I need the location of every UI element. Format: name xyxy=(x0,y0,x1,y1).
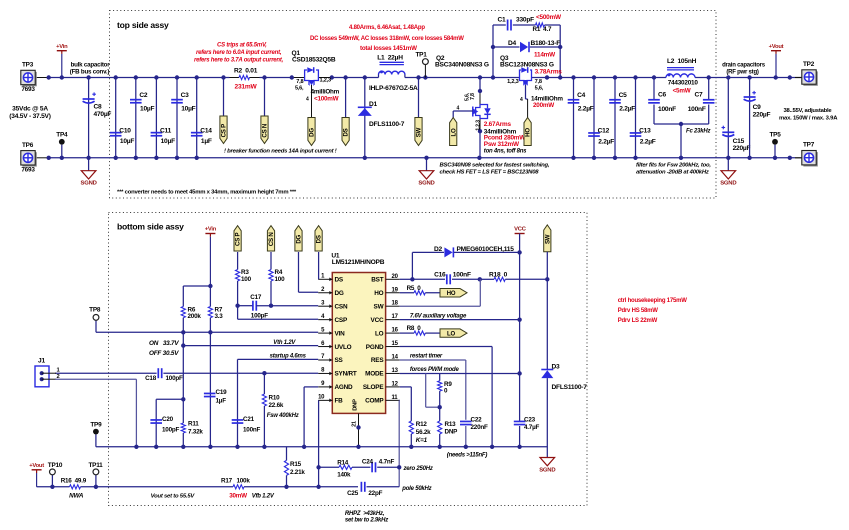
svg-text:TP8: TP8 xyxy=(89,307,101,314)
svg-text:check HS FET = LS FET = BSC123: check HS FET = LS FET = BSC123N08 xyxy=(440,169,540,175)
svg-text:SGND: SGND xyxy=(539,467,555,473)
svg-text:TP6: TP6 xyxy=(22,142,34,149)
svg-text:R8 0: R8 0 xyxy=(407,325,422,332)
svg-text:SW: SW xyxy=(544,234,551,244)
svg-text:140k: 140k xyxy=(337,472,351,479)
svg-text:11: 11 xyxy=(392,395,399,401)
svg-text:R3: R3 xyxy=(241,269,249,276)
svg-text:200mW: 200mW xyxy=(533,102,554,109)
svg-text:+Vout: +Vout xyxy=(769,44,784,50)
svg-text:ON 33.7V: ON 33.7V xyxy=(149,340,179,347)
svg-text:L1 22µH: L1 22µH xyxy=(377,55,403,62)
svg-text:(34.5V - 37.5V): (34.5V - 37.5V) xyxy=(9,113,50,120)
svg-text:DS: DS xyxy=(316,235,323,243)
svg-text:drain capacitors: drain capacitors xyxy=(722,63,766,69)
svg-text:C19: C19 xyxy=(216,389,228,396)
svg-text:R15: R15 xyxy=(290,461,302,468)
svg-text:100: 100 xyxy=(275,276,286,283)
svg-text:TP11: TP11 xyxy=(88,462,103,469)
svg-text:2.2µF: 2.2µF xyxy=(619,106,635,113)
svg-text:zero 250Hz: zero 250Hz xyxy=(403,466,433,472)
svg-text:R17 100k: R17 100k xyxy=(221,477,250,484)
svg-text:C5: C5 xyxy=(619,92,628,99)
svg-text:10µF: 10µF xyxy=(140,106,154,113)
svg-text:DNP: DNP xyxy=(353,399,359,411)
svg-text:C8: C8 xyxy=(94,104,103,111)
svg-text:100nF: 100nF xyxy=(453,271,471,278)
svg-text:VCC: VCC xyxy=(514,227,527,233)
svg-text:bottom side assy: bottom side assy xyxy=(117,222,184,232)
svg-text:4: 4 xyxy=(457,105,460,111)
svg-text:744302010: 744302010 xyxy=(668,80,699,87)
svg-text:220nF: 220nF xyxy=(471,424,488,431)
svg-text:220µF: 220µF xyxy=(753,111,771,118)
svg-text:(FB bus conv.): (FB bus conv.) xyxy=(70,69,110,76)
svg-text:2.67Arms: 2.67Arms xyxy=(484,121,512,128)
svg-text:13: 13 xyxy=(392,368,399,374)
svg-text:BSC123N08NS3 G: BSC123N08NS3 G xyxy=(500,62,554,69)
svg-text:C20: C20 xyxy=(162,416,174,423)
svg-text:refers here to 6.0A input curr: refers here to 6.0A input current, xyxy=(196,50,282,56)
svg-text:C7: C7 xyxy=(695,91,704,98)
svg-text:BST: BST xyxy=(371,277,383,284)
svg-text:<500mW: <500mW xyxy=(536,14,562,21)
svg-text:C16: C16 xyxy=(434,271,446,278)
svg-text:Vfb 1.2V: Vfb 1.2V xyxy=(252,494,275,500)
svg-text:100pF: 100pF xyxy=(166,375,183,382)
svg-text:Fc 23kHz: Fc 23kHz xyxy=(686,129,710,135)
svg-text:<5mW: <5mW xyxy=(673,88,691,95)
svg-text:C12: C12 xyxy=(598,128,610,135)
svg-text:+Vin: +Vin xyxy=(205,227,217,233)
svg-text:DS: DS xyxy=(343,128,350,136)
svg-text:R12: R12 xyxy=(416,421,428,428)
svg-text:19: 19 xyxy=(392,287,399,293)
svg-text:BSC340N08NS3 G: BSC340N08NS3 G xyxy=(435,62,489,69)
svg-text:CS trips at 65.5mV,: CS trips at 65.5mV, xyxy=(217,43,267,49)
svg-text:CS P: CS P xyxy=(235,232,242,245)
svg-text:R2 0.01: R2 0.01 xyxy=(234,68,258,75)
svg-text:SYN/RT: SYN/RT xyxy=(335,371,357,378)
svg-text:4: 4 xyxy=(520,97,523,103)
svg-text:FB: FB xyxy=(335,398,344,405)
svg-text:TP1: TP1 xyxy=(415,52,427,59)
svg-text:22pF: 22pF xyxy=(368,490,382,497)
svg-text:C2: C2 xyxy=(139,92,148,99)
svg-text:114mW: 114mW xyxy=(534,52,556,59)
svg-text:ctrl housekeeping 175mW: ctrl housekeeping 175mW xyxy=(618,298,688,304)
svg-text:12: 12 xyxy=(392,381,399,387)
svg-text:R18 0: R18 0 xyxy=(489,271,508,278)
svg-text:Vout set to 55.5V: Vout set to 55.5V xyxy=(151,494,196,500)
svg-text:C23: C23 xyxy=(524,416,536,423)
svg-text:C1: C1 xyxy=(498,17,507,24)
svg-text:Psw 312mW: Psw 312mW xyxy=(484,141,520,148)
svg-text:100pF: 100pF xyxy=(162,427,179,434)
svg-text:14: 14 xyxy=(392,355,399,361)
svg-text:(RF pwr stg): (RF pwr stg) xyxy=(726,70,759,76)
svg-text:! breaker function needs 14A i: ! breaker function needs 14A input curre… xyxy=(224,149,337,155)
svg-text:4.7nF: 4.7nF xyxy=(379,458,395,465)
svg-text:4milliOhm: 4milliOhm xyxy=(311,89,340,96)
svg-text:5,6,: 5,6, xyxy=(535,86,544,92)
svg-text:C6: C6 xyxy=(658,91,667,98)
svg-text:CSP: CSP xyxy=(335,317,348,324)
svg-text:10µF: 10µF xyxy=(161,138,175,145)
svg-text:VCC: VCC xyxy=(371,317,384,324)
svg-text:restart timer: restart timer xyxy=(410,354,443,360)
svg-text:DFLS1100-7: DFLS1100-7 xyxy=(369,121,405,128)
svg-text:220µF: 220µF xyxy=(733,145,751,152)
svg-text:TP5: TP5 xyxy=(769,132,781,139)
svg-text:<100mW: <100mW xyxy=(314,96,339,103)
svg-text:pole 50kHz: pole 50kHz xyxy=(401,486,431,492)
svg-text:100pF: 100pF xyxy=(251,312,268,319)
svg-text:3.3: 3.3 xyxy=(215,313,224,320)
svg-text:R1 4.7: R1 4.7 xyxy=(533,26,552,33)
svg-text:10: 10 xyxy=(318,395,325,401)
svg-text:100nF: 100nF xyxy=(658,106,676,113)
svg-text:C4: C4 xyxy=(577,92,586,99)
svg-text:100nF: 100nF xyxy=(688,106,706,113)
svg-text:3.78Arms: 3.78Arms xyxy=(535,69,563,76)
svg-text:R13: R13 xyxy=(445,421,457,428)
svg-text:21: 21 xyxy=(352,421,358,427)
svg-text:filter fits for Fsw 200kHz, to: filter fits for Fsw 200kHz, too, xyxy=(636,163,711,169)
svg-text:D3: D3 xyxy=(552,363,561,370)
svg-text:7.32k: 7.32k xyxy=(188,429,203,436)
svg-text:L2 105nH: L2 105nH xyxy=(667,58,697,65)
svg-text:2.21k: 2.21k xyxy=(290,469,305,476)
svg-text:DS: DS xyxy=(335,277,344,284)
svg-text:LO: LO xyxy=(375,330,384,337)
svg-text:231mW: 231mW xyxy=(235,84,258,91)
svg-text:C11: C11 xyxy=(160,127,172,134)
svg-text:K=1: K=1 xyxy=(416,437,428,444)
svg-text:100: 100 xyxy=(241,276,252,283)
svg-text:COMP: COMP xyxy=(365,398,384,405)
svg-text:TP4: TP4 xyxy=(56,132,68,139)
svg-text:4.7µF: 4.7µF xyxy=(524,424,540,431)
svg-text:Fsw 400kHz: Fsw 400kHz xyxy=(267,413,299,419)
svg-text:R16 49.9: R16 49.9 xyxy=(61,477,87,484)
svg-text:HO: HO xyxy=(525,128,532,137)
svg-text:Pdrv HS 58mW: Pdrv HS 58mW xyxy=(618,308,659,314)
svg-text:C3: C3 xyxy=(181,92,190,99)
svg-text:CS N: CS N xyxy=(268,232,275,246)
svg-text:SGND: SGND xyxy=(81,181,97,187)
svg-text:R5 0: R5 0 xyxy=(407,285,422,292)
svg-text:R10: R10 xyxy=(269,395,281,402)
svg-text:SS: SS xyxy=(335,357,344,364)
svg-text:R11: R11 xyxy=(188,421,199,428)
svg-text:startup 4.6ms: startup 4.6ms xyxy=(270,354,307,360)
svg-text:(needs >115nF): (needs >115nF) xyxy=(447,452,488,458)
svg-text:2.2µF: 2.2µF xyxy=(598,138,614,145)
svg-text:MODE: MODE xyxy=(365,371,384,378)
svg-text:4.80Arms, 6.46Asat, 1.48App: 4.80Arms, 6.46Asat, 1.48App xyxy=(349,25,425,31)
svg-text:ton 4ns, toff 8ns: ton 4ns, toff 8ns xyxy=(484,149,527,155)
svg-text:SLOPE: SLOPE xyxy=(363,384,385,391)
svg-text:17: 17 xyxy=(392,314,399,320)
svg-text:CS P: CS P xyxy=(221,124,228,137)
svg-text:AGND: AGND xyxy=(335,384,354,391)
svg-text:UVLO: UVLO xyxy=(335,344,352,351)
svg-text:100nF: 100nF xyxy=(243,427,260,434)
svg-text:RHPZ >43kHz,: RHPZ >43kHz, xyxy=(345,511,385,517)
svg-text:LO: LO xyxy=(447,331,455,337)
svg-text:+Vin: +Vin xyxy=(56,44,68,50)
svg-text:2.2µF: 2.2µF xyxy=(640,138,656,145)
svg-text:18: 18 xyxy=(392,301,399,307)
svg-text:PGND: PGND xyxy=(366,344,384,351)
svg-text:TP10: TP10 xyxy=(48,462,63,469)
svg-text:7,8: 7,8 xyxy=(535,79,542,85)
svg-text:7,8: 7,8 xyxy=(296,79,303,85)
svg-text:HO: HO xyxy=(447,291,456,297)
svg-text:OFF 30.5V: OFF 30.5V xyxy=(149,350,179,357)
svg-text:bulk capacitor: bulk capacitor xyxy=(71,62,111,69)
svg-text:D1: D1 xyxy=(369,101,378,108)
svg-text:D2: D2 xyxy=(434,246,443,253)
svg-text:top side assy: top side assy xyxy=(117,20,169,30)
svg-text:C17: C17 xyxy=(250,294,262,301)
svg-text:C14: C14 xyxy=(200,127,212,134)
svg-text:10µF: 10µF xyxy=(120,138,134,145)
svg-text:NWA: NWA xyxy=(69,493,84,500)
svg-text:330pF: 330pF xyxy=(516,17,534,24)
svg-text:DC losses 549mW, AC losses 318: DC losses 549mW, AC losses 318mW, core l… xyxy=(310,36,464,42)
svg-text:SGND: SGND xyxy=(418,181,434,187)
svg-text:*** converter needs to meet 45: *** converter needs to meet 45mm x 34mm,… xyxy=(117,190,297,196)
svg-text:4: 4 xyxy=(306,97,309,103)
svg-text:7.6V auxiliary voltage: 7.6V auxiliary voltage xyxy=(410,313,467,319)
svg-text:BSC340N08 selected for fastest: BSC340N08 selected for fastest switching… xyxy=(440,163,550,169)
svg-text:set bw to 2.9kHz: set bw to 2.9kHz xyxy=(345,518,388,524)
svg-text:2.2µF: 2.2µF xyxy=(578,106,594,113)
svg-text:SW: SW xyxy=(374,303,385,310)
svg-text:LO: LO xyxy=(450,128,457,137)
svg-text:38..55V, adjustable: 38..55V, adjustable xyxy=(784,108,833,114)
svg-text:5,6,: 5,6, xyxy=(295,86,304,92)
svg-text:1µF: 1µF xyxy=(216,398,227,405)
svg-text:15: 15 xyxy=(392,341,399,347)
svg-text:TP7: TP7 xyxy=(803,142,815,149)
svg-text:200k: 200k xyxy=(188,313,202,320)
svg-text:+Vout: +Vout xyxy=(29,463,44,469)
svg-text:1,2,3: 1,2,3 xyxy=(320,78,331,84)
svg-text:max. 150W / max. 3.9A: max. 150W / max. 3.9A xyxy=(779,115,838,121)
svg-text:7,8: 7,8 xyxy=(470,93,476,100)
svg-text:C9: C9 xyxy=(753,104,762,111)
svg-text:C25: C25 xyxy=(347,490,359,497)
svg-text:22.6k: 22.6k xyxy=(269,402,284,409)
svg-text:RES: RES xyxy=(371,357,384,364)
svg-text:DNP: DNP xyxy=(445,429,458,436)
svg-text:SGND: SGND xyxy=(720,181,736,187)
svg-text:1,2,3: 1,2,3 xyxy=(476,120,482,131)
svg-text:PMEG6010CEH,115: PMEG6010CEH,115 xyxy=(457,246,515,253)
svg-text:DG: DG xyxy=(309,128,316,137)
svg-text:Pdrv LS 22mW: Pdrv LS 22mW xyxy=(618,318,658,324)
svg-text:20: 20 xyxy=(392,274,399,280)
svg-text:SW: SW xyxy=(416,127,423,137)
svg-text:C22: C22 xyxy=(471,416,483,423)
svg-text:total losses 1451mW: total losses 1451mW xyxy=(360,45,417,52)
svg-text:VIN: VIN xyxy=(335,330,346,337)
svg-text:IHLP-6767GZ-5A: IHLP-6767GZ-5A xyxy=(369,85,418,92)
svg-text:C10: C10 xyxy=(119,127,131,134)
svg-text:56.2k: 56.2k xyxy=(416,429,431,436)
svg-text:35Vdc @ 5A: 35Vdc @ 5A xyxy=(12,106,48,113)
svg-text:DG: DG xyxy=(296,234,303,243)
svg-text:DFLS1100-7: DFLS1100-7 xyxy=(552,384,588,391)
svg-text:CS N: CS N xyxy=(262,124,269,138)
svg-text:R14: R14 xyxy=(337,459,349,466)
svg-text:TP2: TP2 xyxy=(803,61,815,68)
svg-text:C21: C21 xyxy=(243,416,255,423)
svg-text:B180-13-F: B180-13-F xyxy=(531,40,561,47)
svg-text:10µF: 10µF xyxy=(181,106,195,113)
svg-text:C24: C24 xyxy=(362,458,374,465)
svg-text:DG: DG xyxy=(335,290,344,297)
svg-text:CSD18532Q5B: CSD18532Q5B xyxy=(292,57,336,64)
svg-text:C13: C13 xyxy=(639,128,651,135)
svg-text:R4: R4 xyxy=(275,269,283,276)
svg-text:1µF: 1µF xyxy=(201,138,212,145)
svg-text:7693: 7693 xyxy=(21,86,35,93)
svg-text:HO: HO xyxy=(374,290,383,297)
svg-text:refers here to 3.7A output cur: refers here to 3.7A output current, xyxy=(194,58,284,64)
svg-text:C18: C18 xyxy=(145,375,157,382)
svg-text:J1: J1 xyxy=(38,358,45,365)
svg-text:TP3: TP3 xyxy=(22,62,34,69)
svg-text:attenuation -20dB at 400kHz: attenuation -20dB at 400kHz xyxy=(636,169,709,175)
svg-text:TP9: TP9 xyxy=(90,421,102,428)
svg-text:Vth 1.2V: Vth 1.2V xyxy=(273,340,296,346)
svg-text:30mW: 30mW xyxy=(229,493,247,500)
svg-text:16: 16 xyxy=(392,328,399,334)
svg-text:forces PWM mode: forces PWM mode xyxy=(410,367,460,373)
svg-text:7693: 7693 xyxy=(21,166,35,173)
svg-text:470µF: 470µF xyxy=(94,111,112,118)
svg-text:1,2,3: 1,2,3 xyxy=(507,79,518,85)
svg-text:D4: D4 xyxy=(508,40,517,47)
svg-text:CSN: CSN xyxy=(335,303,348,310)
svg-text:LM5121MH/NOPB: LM5121MH/NOPB xyxy=(332,259,385,266)
